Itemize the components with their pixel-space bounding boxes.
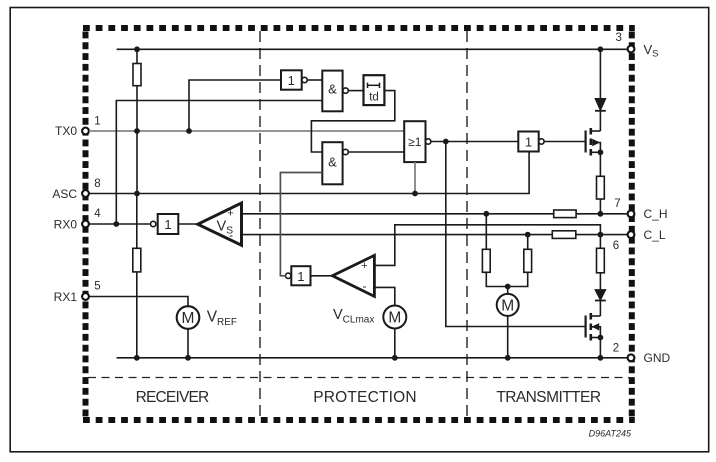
svg-text:td: td: [369, 92, 379, 104]
wire RX0 line: [89, 223, 150, 225]
wire VS rail drop to D1: [599, 49, 601, 98]
section separator receiver/protection: [259, 31, 261, 417]
and gate U2: [322, 71, 348, 112]
svg-text:-: -: [229, 228, 233, 242]
svg-text:C_H: C_H: [644, 207, 668, 221]
node C_H / R5: [483, 211, 489, 217]
pin 7 C_H: [614, 198, 667, 221]
wire C_L to R4: [599, 235, 601, 249]
svg-text:4: 4: [94, 208, 101, 220]
svg-text:1: 1: [94, 116, 100, 128]
svg-text:2: 2: [613, 343, 619, 355]
svg-text:GND: GND: [644, 351, 671, 365]
wire U7 to Q1 gate: [544, 141, 586, 143]
svg-text:C_L: C_L: [644, 228, 666, 242]
svg-text:TX0: TX0: [55, 124, 77, 138]
svg-text:PROTECTION: PROTECTION: [313, 389, 417, 406]
section separator protection/transmitter: [466, 31, 468, 417]
wire R2 bottom to GND rail: [136, 272, 138, 358]
wire Q1 source to R3: [599, 152, 601, 176]
buffer U7: [518, 132, 544, 152]
wire U5 feedback to AND2 input: [280, 173, 322, 276]
pin 5 RX1: [54, 281, 101, 304]
pin 1 TX0: [55, 116, 101, 139]
wire VS top rail: [117, 48, 628, 50]
svg-text:+: +: [227, 208, 233, 220]
wire TX0 riser to inverter U1: [189, 80, 281, 131]
diode D1: [595, 99, 606, 111]
svg-text:RX0: RX0: [54, 217, 78, 231]
diode D2: [595, 290, 606, 301]
wire D2 to Q2 drain: [599, 301, 601, 317]
resistor R6: [524, 249, 532, 272]
inverter U5: [286, 266, 311, 285]
node ASC / U6: [412, 191, 418, 197]
wire C_H net: [241, 213, 553, 215]
delay block U3 td: [364, 75, 385, 105]
wire TX0 pullup branch vertical: [136, 49, 138, 63]
inverter U1: [281, 70, 307, 89]
svg-text:VCLmax: VCLmax: [333, 307, 374, 325]
wire R3 to C_H: [599, 199, 601, 214]
wire M2 to GND rail: [394, 329, 396, 358]
node GND / R2: [134, 355, 140, 361]
svg-text:-: -: [363, 279, 367, 293]
node C_L / R6: [525, 232, 531, 238]
and gate U4: [322, 142, 348, 184]
wire CMP2 + input to C_L: [374, 225, 600, 266]
wire RH2 to C_L pin: [576, 234, 628, 236]
svg-text:ASC: ASC: [52, 187, 77, 201]
current source M1 VREF: [177, 306, 200, 329]
svg-text:+: +: [361, 260, 367, 272]
wire R1 bottom to TX0/ASC: [136, 86, 138, 194]
node top rail / R1: [134, 46, 140, 52]
wire TX0 line (gray): [89, 130, 404, 132]
wire U6 bottom to ASC (gray): [414, 162, 416, 193]
wire C_L net: [241, 234, 552, 236]
svg-text:VREF: VREF: [207, 309, 237, 328]
svg-text:RX1: RX1: [54, 290, 78, 304]
pin 2 GND: [613, 343, 671, 366]
wire RH1 to C_H pin: [576, 213, 627, 215]
current source M3: [497, 294, 519, 316]
inverter U5r on RX0: [151, 214, 179, 234]
svg-text:1: 1: [164, 217, 171, 232]
svg-text:7: 7: [614, 198, 620, 210]
svg-text:5: 5: [94, 281, 100, 293]
node GND / M1: [185, 355, 191, 361]
wire C_H branch to R5: [485, 214, 487, 250]
svg-text:&: &: [328, 155, 337, 170]
svg-text:D96AT245: D96AT245: [589, 429, 632, 439]
wire td output loop to AND2: [311, 91, 394, 152]
wire CMP2 - input to M2: [374, 287, 394, 305]
wire Q2 source to GND: [599, 338, 601, 358]
wire CMP2 out to U5: [311, 275, 333, 277]
svg-text:M: M: [182, 310, 195, 327]
svg-text:6: 6: [613, 240, 619, 252]
node ASC / R2 branch: [134, 191, 140, 197]
wire R4 to D2: [599, 273, 601, 290]
wire M1 to GND rail: [187, 328, 189, 358]
wire U4 to OR gate: [348, 151, 404, 153]
node TX0 / R1: [134, 128, 140, 134]
node GND / Q2: [598, 355, 604, 361]
current source M2: [383, 306, 406, 329]
chip boundary (thick dashed): [83, 28, 635, 420]
node Q2 source/body: [598, 335, 604, 341]
svg-text:RECEIVER: RECEIVER: [136, 389, 209, 406]
node Q1 source/body: [598, 149, 604, 155]
transistor Q2 (lower MOSFET): [586, 313, 601, 341]
transistor Q1 (upper MOSFET): [586, 128, 601, 156]
svg-text:1: 1: [297, 269, 304, 284]
resistor RH1 (C_H series): [554, 210, 576, 218]
wire ASC branch down to R2: [136, 194, 138, 249]
svg-text:1: 1: [288, 73, 295, 88]
wire U6 output to U7: [431, 141, 518, 143]
wire D1 to Q1 drain: [599, 111, 601, 131]
resistor RH2 (C_L series): [552, 231, 576, 239]
node gate net split: [443, 139, 449, 145]
wire RX1 line to VREF source: [89, 297, 188, 307]
section band top dashed line: [88, 377, 629, 379]
wire U1 to AND1: [307, 79, 322, 81]
node C_H / R3: [598, 211, 604, 217]
svg-text:VS: VS: [644, 42, 659, 60]
wire CMP1 out to U5r: [178, 223, 198, 225]
svg-text:M: M: [501, 298, 514, 315]
resistor R4: [597, 248, 605, 272]
wire ASC line: [89, 149, 529, 194]
node TX0 / U1 riser: [186, 128, 192, 134]
node C_L / R4: [598, 232, 604, 238]
resistor R1 (TX0 pull-up): [133, 64, 141, 86]
pin 6 C_L: [613, 228, 666, 252]
node RX0 / AND1 riser: [113, 221, 119, 227]
wire R5/R6 bottoms joined: [486, 272, 527, 286]
comparator CMP1 VS (receiver): [198, 203, 242, 245]
pin 4 RX0: [54, 208, 102, 231]
node GND / M3: [505, 355, 511, 361]
node GND / M2: [392, 355, 398, 361]
svg-text:&: &: [328, 82, 337, 97]
svg-text:1: 1: [525, 134, 532, 149]
svg-text:TRANSMITTER: TRANSMITTER: [496, 389, 601, 406]
wire left riser RX0 to AND1 input: [116, 101, 322, 225]
resistor R5: [482, 249, 490, 272]
svg-text:≥1: ≥1: [408, 135, 422, 149]
resistor R2: [133, 248, 141, 272]
wire gate-net down to Q2 gate: [446, 142, 586, 327]
wire M3 to GND rail: [507, 316, 509, 358]
node top rail / D1: [598, 46, 604, 52]
wire GND bottom rail: [117, 357, 628, 359]
svg-text:M: M: [388, 310, 401, 327]
or gate U6: [404, 121, 431, 162]
pin 8 ASC: [52, 178, 100, 201]
comparator CMP2 VCLmax: [332, 255, 374, 296]
wire junction to M3: [507, 287, 509, 295]
svg-text:3: 3: [615, 32, 621, 44]
wire U2 to td: [348, 90, 363, 92]
wire C_L branch to R6: [527, 235, 529, 250]
resistor R3: [597, 176, 605, 199]
svg-text:8: 8: [94, 178, 100, 190]
node R5R6 / M3: [505, 284, 511, 290]
pin 3 VS: [615, 32, 658, 60]
